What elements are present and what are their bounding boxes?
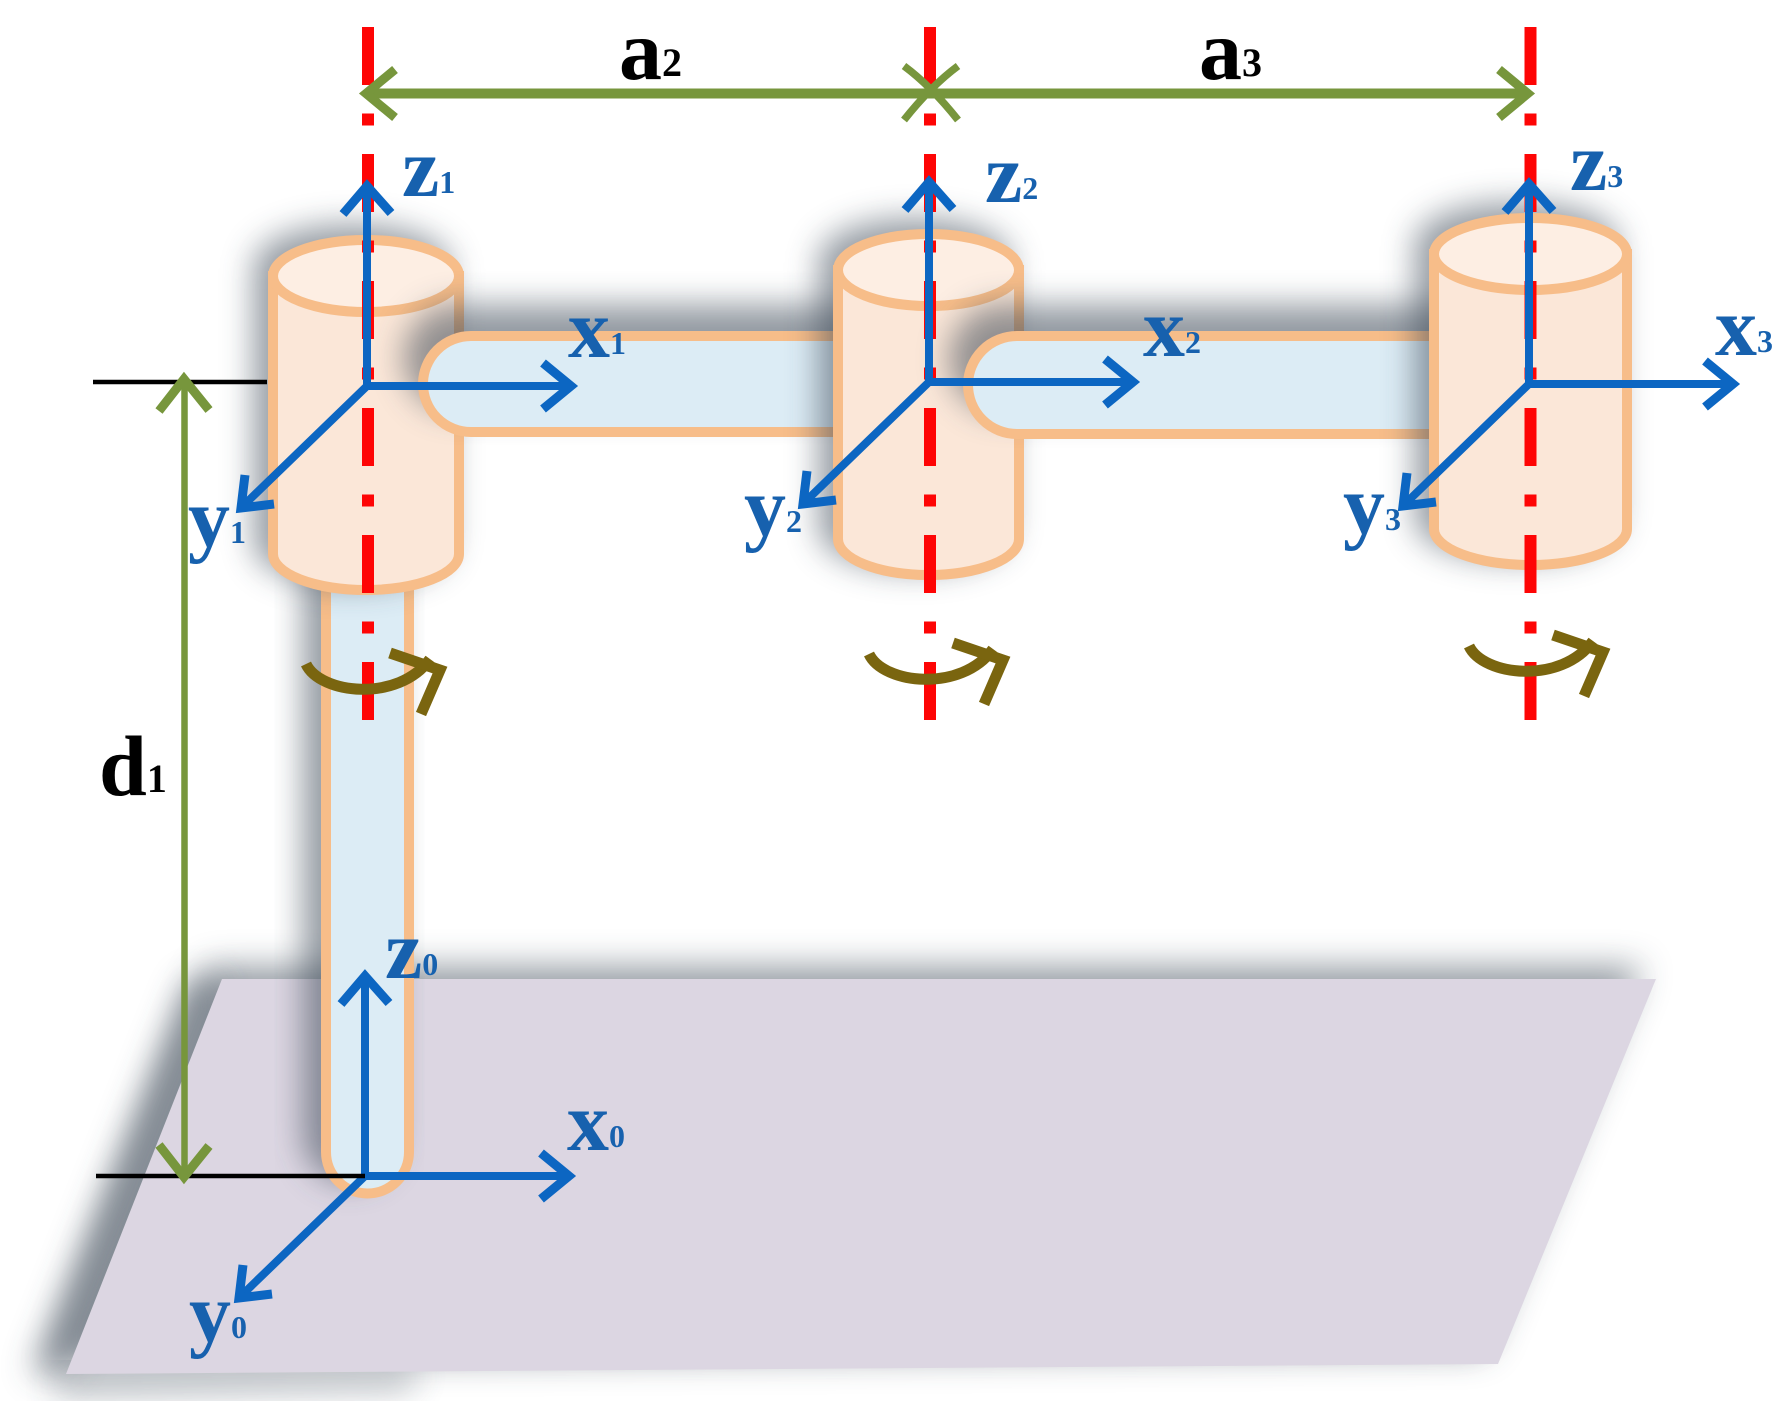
dimension d1 line (green vertical) bbox=[181, 381, 188, 1175]
ground plane left edge shadow bbox=[30, 979, 224, 1374]
ground plane shadow bbox=[52, 967, 1642, 1362]
svg-text:z1: z1 bbox=[402, 122, 455, 215]
frame 2 z-axis arrow bbox=[905, 182, 953, 382]
svg-text:a2: a2 bbox=[619, 2, 682, 98]
cylinder J3 bbox=[1434, 218, 1627, 565]
frame 1 x-axis arrow bbox=[367, 363, 571, 409]
ground plane bottom-left shadow bbox=[50, 1370, 420, 1394]
frame 3 y-axis arrow bbox=[1403, 384, 1529, 506]
joint axis 3 (red dash-dot) bbox=[1525, 27, 1537, 720]
frame 0 y-axis arrow bbox=[239, 1176, 365, 1298]
dimension d1 bottom arrowhead bbox=[159, 1145, 209, 1177]
cylinder J2 bbox=[838, 234, 1019, 575]
frame 0 x-axis arrow bbox=[365, 1153, 569, 1199]
cylinder J2 shadow bbox=[824, 224, 1005, 565]
dimension d1 top arrowhead bbox=[159, 379, 209, 411]
svg-text:z3: z3 bbox=[1570, 116, 1623, 209]
svg-text:d1: d1 bbox=[99, 718, 167, 814]
cylinder J3 shadow bbox=[1420, 208, 1613, 555]
link a2 shadow bbox=[409, 310, 941, 406]
dimension crossing arrowheads at joint axis 2 bbox=[904, 66, 958, 120]
link base (vertical) shadow bbox=[308, 504, 391, 1177]
frame 1 z-axis arrow bbox=[343, 186, 391, 386]
link a3 (joint2 to joint3) bbox=[968, 336, 1560, 434]
dimension a2/a3 line (green horizontal) bbox=[370, 89, 1524, 99]
joint axis 1 (red dash-dot) bbox=[362, 27, 374, 720]
frame 2 y-axis arrow bbox=[803, 382, 929, 504]
link base (vertical, joint1 to ground) bbox=[326, 520, 409, 1193]
rotation arrow joint1 bbox=[306, 653, 440, 714]
frame 0 z-axis arrow bbox=[341, 976, 389, 1176]
cylinder J1 bbox=[273, 240, 459, 590]
link a2 (joint1 to joint2) bbox=[423, 336, 955, 432]
frame 2 x-axis arrow bbox=[929, 359, 1133, 405]
svg-text:y3: y3 bbox=[1343, 459, 1401, 552]
frame 3 z-axis arrow bbox=[1505, 184, 1553, 384]
frame 3 x-axis arrow bbox=[1529, 361, 1733, 407]
rotation arrow joint2 bbox=[869, 643, 1003, 704]
black tick bottom (d1 lower extension line) bbox=[96, 1174, 365, 1179]
dimension right arrowhead at joint axis 3 bbox=[1499, 70, 1528, 118]
joint axis 2 (red dash-dot) bbox=[924, 27, 936, 720]
dimension left arrowhead at joint axis 1 bbox=[366, 70, 395, 118]
svg-text:y1: y1 bbox=[188, 472, 246, 565]
black tick top (d1 upper extension line) bbox=[93, 380, 267, 385]
ground plane bbox=[66, 979, 1656, 1374]
cylinder J1 shadow bbox=[259, 230, 445, 580]
rotation arrow joint3 bbox=[1469, 635, 1603, 696]
svg-text:z2: z2 bbox=[985, 128, 1038, 221]
frame 1 y-axis arrow bbox=[241, 386, 367, 508]
svg-text:x3: x3 bbox=[1715, 281, 1773, 374]
link a3 shadow bbox=[954, 310, 1546, 408]
svg-text:a3: a3 bbox=[1199, 2, 1262, 98]
svg-text:y2: y2 bbox=[744, 461, 802, 554]
